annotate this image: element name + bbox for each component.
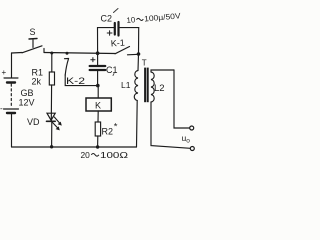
wire R1 top lead [51,53,53,72]
transformer core bar 2 [147,68,149,103]
svg-text:K-2: K-2 [66,76,85,86]
capacitor C1 bottom plate [90,69,106,71]
wire top bus middle segment [44,53,115,54]
transformer L2 winding [151,72,154,102]
switch S right contact [43,49,45,53]
terminal upper output [190,126,194,130]
wire left rail lower [11,114,13,148]
transformer L1 winding [134,71,138,101]
wire L2 bottom lead / output lower branch [151,102,190,148]
svg-text:*: * [114,122,118,133]
wire VD bottom lead [51,121,53,147]
switch S actuator stem [32,40,34,48]
node K-2 top junction [66,52,69,55]
wire K coil top lead [97,86,99,98]
resistor R1 [49,72,54,85]
wire R2 bottom lead [97,136,99,147]
svg-text:+: + [2,68,7,77]
wire top bus left segment [12,52,23,55]
wire L2 top lead [151,70,174,72]
wire left rail upper [11,53,13,78]
label 10~100u/50V [126,11,182,25]
stray mark above C2 [114,9,119,13]
wire battery dashed link [10,84,12,107]
resistor R2 [95,122,100,136]
wire bottom rail [12,146,137,148]
diode VD arrow 1 [54,117,60,124]
wire C2 to right rail [119,27,139,29]
svg-text:100Ω: 100Ω [100,150,128,160]
battery GB cell2 short plate [7,112,15,114]
label tilde bottom [91,154,99,157]
diode VD triangle [47,113,55,120]
battery GB cell2 long plate [4,108,19,110]
svg-text:L1: L1 [121,80,131,90]
svg-text:T: T [142,58,147,67]
svg-text:S: S [30,27,36,37]
svg-text:K: K [95,101,101,111]
svg-text:20: 20 [81,150,91,160]
terminal lower output [190,147,194,151]
capacitor C2 right plate [117,22,119,36]
svg-text:10: 10 [126,15,136,25]
node C1/C2 branch junction [96,51,100,55]
diode VD cathode bar [47,120,56,122]
svg-text:GB: GB [21,88,34,98]
svg-text:VD: VD [27,117,40,127]
node R1 top junction [50,52,53,55]
node right rail junction [137,52,141,56]
svg-text:K-1: K-1 [110,38,125,49]
wire L1 bottom lead [136,101,139,148]
svg-text:2k: 2k [32,77,42,87]
relay contact K-2 lever [65,59,68,75]
stray speck near L1 [113,74,114,76]
relay contact K-2 top tick [65,58,69,60]
wire right rail [137,28,140,71]
svg-text:12V: 12V [19,98,35,108]
wire top bus right stub [128,53,139,56]
wire C2 riser [98,28,114,54]
battery GB cell1 short plate [7,81,15,83]
wire C1 top lead [97,53,99,65]
wire K coil bottom lead [97,111,99,122]
svg-text:-: - [0,104,3,113]
relay contact K-1 lever [115,47,130,54]
svg-text:L2: L2 [154,83,165,94]
capacitor C2 plus sign [107,31,112,35]
wire output upper branch [174,70,190,128]
switch S actuator bar [29,38,37,41]
wire R1 to VD lead [50,85,52,121]
capacitor C2 left plate [114,23,116,35]
svg-text:100μ/50V: 100μ/50V [144,11,182,23]
node VD bottom junction [50,145,53,148]
battery GB cell1 long plate [4,77,18,79]
svg-text:R2: R2 [102,127,114,137]
capacitor C1 top plate [90,65,106,67]
relay coil K box [86,98,111,111]
capacitor C1 plus sign [91,58,95,62]
node C1 bottom junction [96,84,100,88]
svg-text:uo: uo [182,133,191,145]
node R2 bottom junction [96,145,99,148]
svg-text:C2: C2 [101,14,113,24]
wire C1 bottom lead [97,70,99,86]
transformer core bar 1 [144,68,146,103]
wire K-2 bottom lead [65,75,98,86]
diode VD arrow 2 [52,122,58,128]
switch S lever [22,46,42,53]
svg-text:C1: C1 [106,65,118,75]
